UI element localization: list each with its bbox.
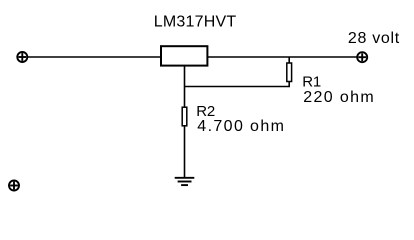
wire input xyxy=(28,56,161,58)
resistor R1 xyxy=(287,63,292,82)
terminal IN- xyxy=(9,181,19,191)
svg-text:LM317HVT: LM317HVT xyxy=(154,13,237,30)
terminal IN+ xyxy=(17,52,27,62)
svg-text:4.700 ohm: 4.700 ohm xyxy=(197,118,285,135)
resistor R2 xyxy=(182,107,187,126)
svg-text:28 volt: 28 volt xyxy=(348,30,400,47)
wire R1 top stub xyxy=(288,57,290,63)
regulator U1 LM317HVT xyxy=(161,46,207,65)
ground xyxy=(175,178,195,185)
wire ADJ horizontal xyxy=(185,86,291,88)
svg-text:220 ohm: 220 ohm xyxy=(303,89,375,106)
wire ADJ pin vertical xyxy=(184,66,186,107)
wire R1 bottom stub xyxy=(288,82,290,87)
svg-text:R1: R1 xyxy=(302,73,321,90)
terminal OUT+ xyxy=(357,52,367,62)
wire output xyxy=(208,56,357,58)
wire R2 to ground xyxy=(184,126,186,177)
